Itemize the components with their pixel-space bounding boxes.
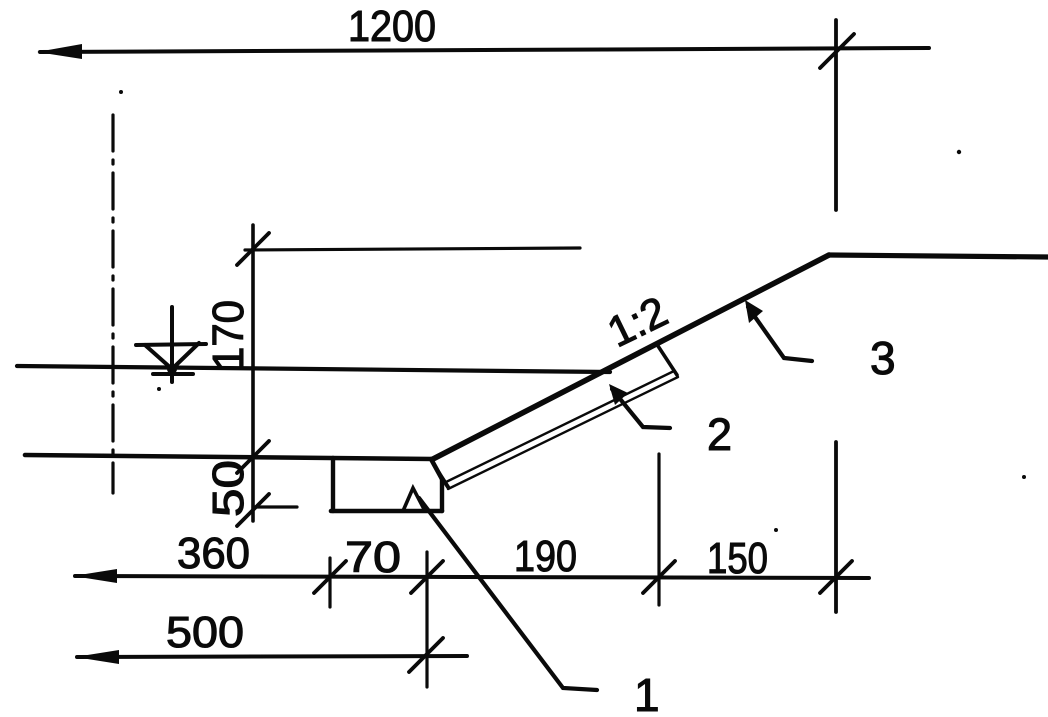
extension line x=836 bottom — [834, 442, 838, 612]
svg-text:190: 190 — [514, 532, 577, 581]
arrowhead row2 left — [75, 650, 119, 664]
tick at y=457 — [237, 441, 269, 473]
svg-text:150: 150 — [707, 534, 768, 583]
leader 3 line — [748, 307, 812, 361]
berm line top right — [829, 255, 1048, 257]
svg-text:1200: 1200 — [348, 2, 436, 51]
leader 2 line — [612, 389, 670, 428]
bench bottom — [331, 509, 442, 514]
lining start wedge — [437, 470, 448, 487]
speck dots — [119, 90, 123, 94]
tick at y=249 — [237, 233, 269, 265]
svg-text:500: 500 — [166, 608, 244, 657]
extension line top x=836 — [834, 20, 838, 210]
extension line x=427 — [425, 552, 428, 687]
extension line x=330 — [328, 558, 331, 607]
arrowhead row1 left — [73, 569, 117, 583]
bench right edge — [440, 479, 444, 511]
tick 1200 at x=836 — [820, 34, 854, 68]
svg-text:360: 360 — [177, 529, 250, 578]
short line right of bottom tick — [253, 505, 297, 508]
bench chamfer — [431, 459, 442, 479]
svg-text:50: 50 — [204, 460, 253, 517]
arrowhead 1200 left — [37, 44, 82, 59]
tick at y=510 — [237, 494, 269, 526]
svg-text:70: 70 — [345, 533, 401, 582]
tick row2 x=427 — [409, 638, 443, 672]
water level symbol — [136, 307, 206, 382]
tick row1 x=836 — [820, 561, 852, 593]
centerline (dash-dot) — [111, 115, 114, 493]
svg-text:1:2: 1:2 — [600, 288, 675, 357]
dimension line 1200 — [40, 48, 929, 52]
ground line — [25, 455, 433, 459]
horizontal line from 170 top tick — [245, 248, 580, 250]
svg-text:1: 1 — [634, 669, 660, 717]
vertical dimension line 170/50 — [251, 225, 255, 521]
svg-text:3: 3 — [870, 332, 896, 384]
bench left edge — [331, 458, 335, 511]
tick row1 x=330 — [314, 561, 346, 593]
lining lower line B — [448, 377, 678, 489]
dimension line row 1 (360/70/190/150) — [75, 576, 869, 578]
water level line — [17, 366, 610, 372]
extension line x=659 — [657, 454, 660, 605]
leader 3 arrowhead — [745, 300, 763, 323]
tick row1 x=659 — [643, 561, 675, 593]
tick row1 x=427 — [411, 561, 443, 593]
leader 2 arrowhead — [609, 384, 628, 405]
dimension line row 2 (500) — [77, 656, 467, 657]
lining end cap — [658, 346, 677, 375]
lining lower line A — [446, 371, 674, 482]
svg-text:2: 2 — [707, 409, 732, 460]
svg-text:170: 170 — [204, 300, 253, 370]
slope line 1:2 — [433, 255, 829, 459]
leader 1 line — [419, 498, 597, 690]
leader 1 arrowhead — [403, 488, 425, 511]
